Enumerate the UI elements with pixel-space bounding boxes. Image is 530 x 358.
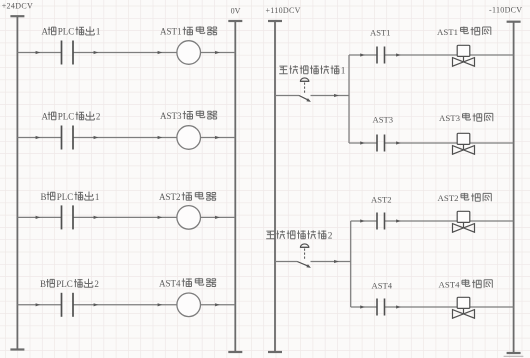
label A路PLC输出1 bbox=[42, 26, 101, 36]
wire rung 2 rail to contact bbox=[17, 137, 61, 139]
flow arrow rung 4 a bbox=[36, 303, 41, 306]
flow arrow rung 1 b bbox=[94, 51, 99, 54]
label +110DCV bbox=[266, 6, 301, 15]
flow arrow rung 1 a bbox=[36, 51, 41, 54]
solenoid valve AST4 bbox=[453, 297, 475, 318]
wire group1 upper contact to valve bbox=[385, 54, 458, 56]
label 手动停机按钮1 bbox=[279, 65, 346, 76]
svg-text:AST2: AST2 bbox=[438, 193, 459, 203]
button 2 wire blade to branch bbox=[311, 261, 351, 263]
solenoid valve AST3 bbox=[453, 133, 475, 154]
flow arrow button 1 wire bbox=[334, 94, 339, 97]
wire group2 lower branch to contact bbox=[351, 306, 377, 308]
label 0V bbox=[231, 6, 241, 15]
right rail bottom foot bbox=[228, 351, 242, 353]
right section right rail -110V bbox=[513, 22, 515, 353]
B路PLC输出2 contact bbox=[62, 293, 74, 317]
svg-text:PLC: PLC bbox=[58, 112, 75, 122]
label AST2电磁阀 bbox=[438, 193, 492, 203]
wire group1 upper branch to contact bbox=[349, 54, 377, 56]
flow arrow rung 2 a bbox=[36, 136, 41, 139]
contact group2 upper bbox=[377, 213, 385, 230]
flow arrow rung 1 c bbox=[158, 51, 163, 54]
label AST1电磁阀 bbox=[437, 27, 491, 37]
faint under-line right foot bbox=[504, 355, 524, 357]
flow arrow group1 lower b bbox=[396, 141, 401, 144]
-110 rail bottom foot bbox=[507, 352, 521, 354]
wire group1 lower branch to contact bbox=[349, 142, 377, 144]
solenoid valve AST2 bbox=[453, 211, 475, 232]
svg-text:AST3: AST3 bbox=[160, 111, 182, 121]
label AST4继电器 bbox=[159, 278, 216, 289]
manual stop push button 2 bbox=[297, 244, 311, 268]
svg-text:AST1: AST1 bbox=[160, 27, 182, 37]
label AST2 bbox=[371, 194, 392, 204]
label AST3继电器 bbox=[160, 110, 217, 121]
wire rung 1 rail to contact bbox=[17, 52, 61, 54]
svg-text:-110DCV: -110DCV bbox=[489, 5, 522, 14]
flow arrow rung 2 c bbox=[158, 136, 163, 139]
label AST2继电器 bbox=[159, 192, 216, 203]
left rail bottom foot bbox=[10, 348, 24, 350]
wire rung 1 contact to coil bbox=[73, 52, 177, 54]
svg-text:PLC: PLC bbox=[58, 27, 75, 37]
wire group1 lower valve to rail bbox=[470, 142, 514, 144]
svg-text:AST3: AST3 bbox=[373, 115, 394, 125]
flow arrow group1 upper b bbox=[396, 53, 401, 56]
flow arrow group2 upper a bbox=[360, 219, 365, 222]
A路PLC输出2 contact bbox=[62, 126, 74, 150]
wire group2 lower contact to valve bbox=[385, 306, 458, 308]
wire group2 lower valve to rail bbox=[470, 306, 514, 308]
label AST4 bbox=[372, 281, 393, 291]
svg-text:1: 1 bbox=[96, 27, 101, 37]
left rail +24V bbox=[16, 17, 18, 350]
contact group2 lower bbox=[377, 299, 385, 316]
left rail top cap bbox=[10, 15, 24, 17]
svg-text:B: B bbox=[41, 192, 47, 202]
flow arrow rung 2 d bbox=[215, 136, 220, 139]
solenoid valve AST1 bbox=[453, 45, 475, 66]
svg-text:AST4: AST4 bbox=[439, 280, 461, 290]
flow arrow button 2 wire bbox=[334, 260, 339, 263]
svg-text:AST1: AST1 bbox=[437, 27, 458, 37]
svg-text:AST4: AST4 bbox=[372, 281, 393, 291]
flow arrow rung 4 b bbox=[94, 303, 99, 306]
branch vertical group 2 bbox=[350, 221, 352, 307]
label B路PLC输出2 bbox=[40, 279, 99, 289]
button 1 wire rail to blade bbox=[275, 95, 299, 97]
right rail top cap bbox=[228, 20, 242, 22]
svg-text:AST2: AST2 bbox=[371, 194, 392, 204]
branch vertical group 1 bbox=[348, 55, 350, 143]
wire rung 4 coil to rail bbox=[201, 304, 236, 306]
A路PLC输出1 contact bbox=[62, 41, 74, 65]
label AST4电磁阀 bbox=[439, 279, 493, 289]
svg-text:AST2: AST2 bbox=[159, 192, 181, 202]
label AST3电磁阀 bbox=[439, 113, 493, 123]
svg-text:+110DCV: +110DCV bbox=[266, 6, 301, 15]
flow arrow rung 3 b bbox=[94, 216, 99, 219]
label AST3 bbox=[373, 115, 394, 125]
flow arrow group1 lower a bbox=[360, 141, 365, 144]
wire rung 3 coil to rail bbox=[201, 216, 236, 218]
label +24DCV top bbox=[2, 2, 34, 11]
flow arrow rung 3 a bbox=[36, 216, 41, 219]
AST1 relay coil bbox=[177, 41, 201, 65]
svg-text:AST4: AST4 bbox=[159, 278, 181, 288]
AST4 relay coil bbox=[177, 293, 201, 317]
flow arrow rung 4 c bbox=[158, 303, 163, 306]
flow arrow rung 3 d bbox=[215, 216, 220, 219]
wire group2 upper contact to valve bbox=[385, 220, 458, 222]
label 手动停机按钮2 bbox=[266, 230, 333, 241]
B路PLC输出1 contact bbox=[62, 205, 74, 229]
label AST1继电器 bbox=[160, 26, 217, 37]
wire rung 4 rail to contact bbox=[17, 304, 61, 306]
button 1 wire blade to branch bbox=[311, 95, 350, 97]
svg-text:1: 1 bbox=[341, 67, 346, 77]
wire group2 upper valve to rail bbox=[470, 220, 514, 222]
left ladder right rail 0V bbox=[234, 21, 236, 352]
svg-text:PLC: PLC bbox=[57, 192, 74, 202]
flow arrow rung 3 c bbox=[158, 216, 163, 219]
wire rung 1 coil to rail bbox=[201, 52, 236, 54]
svg-text:B: B bbox=[40, 279, 46, 289]
svg-text:1: 1 bbox=[95, 192, 100, 202]
flow arrow rung 1 d bbox=[215, 51, 220, 54]
wire rung 3 contact to coil bbox=[73, 216, 177, 218]
label -110DCV bbox=[489, 5, 522, 14]
flow arrow group1 upper a bbox=[360, 53, 365, 56]
svg-text:2: 2 bbox=[96, 112, 101, 122]
AST2 relay coil bbox=[177, 206, 201, 230]
svg-text:PLC: PLC bbox=[56, 279, 73, 289]
right section left rail +110V bbox=[274, 21, 276, 352]
svg-text:2: 2 bbox=[94, 279, 99, 289]
+110 rail top cap bbox=[268, 20, 282, 22]
svg-text:AST3: AST3 bbox=[439, 113, 461, 123]
wire rung 4 contact to coil bbox=[73, 304, 177, 306]
label B路PLC输出1 bbox=[41, 192, 100, 202]
button 2 wire rail to blade bbox=[275, 261, 297, 263]
wire group1 lower contact to valve bbox=[385, 142, 458, 144]
svg-text:2: 2 bbox=[328, 232, 333, 242]
contact group1 upper bbox=[377, 47, 385, 64]
contact group1 lower bbox=[377, 135, 385, 152]
wire group2 upper branch to contact bbox=[351, 220, 377, 222]
manual stop push button 1 bbox=[299, 78, 311, 102]
label A路PLC输出2 bbox=[42, 111, 101, 121]
flow arrow group2 upper b bbox=[396, 219, 401, 222]
svg-text:AST1: AST1 bbox=[370, 28, 391, 38]
svg-text:A: A bbox=[42, 27, 49, 37]
-110 rail top cap bbox=[507, 21, 521, 23]
svg-text:A: A bbox=[42, 112, 49, 122]
AST3 relay coil bbox=[177, 126, 201, 150]
wire rung 2 coil to rail bbox=[201, 137, 236, 139]
svg-text:0V: 0V bbox=[231, 6, 241, 15]
label AST1 bbox=[370, 28, 391, 38]
flow arrow group2 lower b bbox=[396, 305, 401, 308]
flow arrow rung 2 b bbox=[94, 136, 99, 139]
wire rung 2 contact to coil bbox=[73, 137, 177, 139]
wire group1 upper valve to rail bbox=[470, 54, 514, 56]
flow arrow group2 lower a bbox=[360, 305, 365, 308]
svg-text:+24DCV: +24DCV bbox=[2, 2, 34, 11]
wire rung 3 rail to contact bbox=[17, 216, 61, 218]
+110 rail bottom foot bbox=[268, 351, 282, 353]
flow arrow rung 4 d bbox=[215, 303, 220, 306]
